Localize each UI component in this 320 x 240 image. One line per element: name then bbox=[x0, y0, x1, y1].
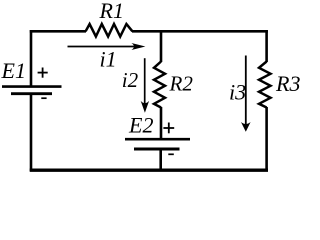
svg-text:R1: R1 bbox=[99, 0, 124, 23]
resistor R1 bbox=[86, 24, 133, 37]
wire top-right segment bbox=[132, 30, 268, 33]
wire top-left segment bbox=[30, 30, 86, 33]
svg-text:R2: R2 bbox=[169, 72, 194, 96]
wire right upper bbox=[265, 30, 268, 62]
wire middle mid bbox=[160, 107, 163, 140]
battery E1 bbox=[2, 87, 62, 94]
wire bottom bbox=[30, 168, 268, 171]
wire middle lower bbox=[159, 149, 162, 171]
svg-text:i1: i1 bbox=[100, 47, 117, 72]
wire left lower bbox=[30, 94, 33, 171]
svg-text:i3: i3 bbox=[229, 79, 246, 104]
battery E2 bbox=[125, 139, 190, 149]
E1 minus sign bbox=[41, 97, 46, 99]
current arrow i2 bbox=[141, 58, 149, 113]
svg-text:i2: i2 bbox=[122, 68, 139, 92]
resistor R2 bbox=[154, 62, 165, 108]
E2 plus sign bbox=[163, 123, 174, 134]
E2 minus sign bbox=[168, 153, 174, 155]
current arrow i1 bbox=[68, 43, 146, 50]
wire left upper bbox=[30, 30, 33, 88]
svg-text:E1: E1 bbox=[1, 58, 26, 83]
svg-text:E2: E2 bbox=[128, 113, 153, 138]
svg-text:R3: R3 bbox=[275, 71, 300, 96]
resistor R3 bbox=[259, 62, 271, 108]
current arrow i3 bbox=[241, 56, 251, 132]
wire right lower bbox=[265, 107, 268, 171]
E1 plus sign bbox=[38, 68, 48, 78]
wire middle upper bbox=[160, 30, 163, 62]
